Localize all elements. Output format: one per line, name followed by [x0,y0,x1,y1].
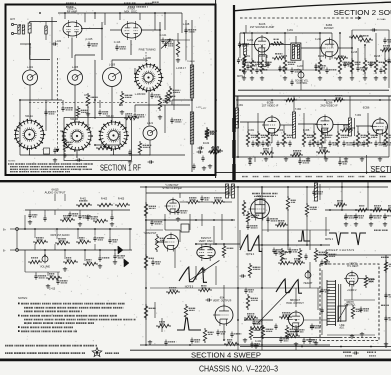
svg-text:CHASSIS NO. V–2220–3: CHASSIS NO. V–2220–3 [199,364,278,374]
svg-text:6AL5: 6AL5 [257,195,263,198]
svg-text:SWEEP CHASSIS: SWEEP CHASSIS [326,248,355,252]
svg-text:2ND VIDEO IF: 2ND VIDEO IF [320,103,338,107]
svg-text:HOR. OUTPUT: HOR. OUTPUT [286,301,304,305]
svg-text:R-303: R-303 [277,130,284,132]
svg-text:SECTION 1 RF: SECTION 1 RF [100,162,141,172]
svg-text:C-415: C-415 [49,289,56,291]
svg-text:NOTE 4: NOTE 4 [226,181,235,183]
svg-text:R-405: R-405 [118,199,125,201]
svg-text:R-203: R-203 [259,56,266,58]
svg-text:VERT. OSC.: VERT. OSC. [199,239,214,243]
svg-text:1ST VIDEO IF: 1ST VIDEO IF [262,103,279,107]
svg-text:½ 6SN7GT: ½ 6SN7GT [144,231,157,235]
svg-text:TUNER: TUNER [187,61,195,63]
svg-text:L-109 600: L-109 600 [135,94,146,96]
svg-text:R-215: R-215 [374,56,381,58]
svg-text:SYNC CLIPPER: SYNC CLIPPER [162,186,181,190]
svg-text:L-121: L-121 [147,122,154,125]
svg-text:NOTE 4: NOTE 4 [246,254,255,256]
svg-text:R-211: R-211 [338,56,345,58]
svg-text:R-309: R-309 [349,128,356,130]
svg-text:T-303: T-303 [355,115,362,117]
svg-text:560K: 560K [368,281,374,283]
svg-text:6AT6 1ST AUDIO: 6AT6 1ST AUDIO [50,234,69,237]
svg-text:6CB6: 6CB6 [363,106,370,110]
svg-text:NOTE 3: NOTE 3 [325,239,334,241]
svg-text:C-211: C-211 [315,39,322,41]
svg-text:AUDIO OUTPUT: AUDIO OUTPUT [45,190,66,194]
svg-text:R-205: R-205 [281,56,288,58]
svg-text:ANT.: ANT. [10,18,16,21]
svg-text:C-105: C-105 [86,38,93,41]
svg-text:L-177: L-177 [201,108,207,110]
svg-text:+9,000 V.: +9,000 V. [347,290,357,292]
svg-text:R-201: R-201 [244,56,251,58]
svg-text:MIX. OSC.: MIX. OSC. [124,10,138,14]
svg-text:SECTION 4 SWEEP: SECTION 4 SWEEP [191,353,261,360]
svg-text:R-162: R-162 [203,143,210,145]
svg-text:1ST SOUND IF AMP: 1ST SOUND IF AMP [250,25,275,29]
svg-text:FINE TUNING: FINE TUNING [139,48,156,52]
svg-text:T-302: T-302 [295,109,302,111]
svg-text:C-441: C-441 [255,341,262,343]
svg-text:HEIGHT: HEIGHT [304,283,313,285]
svg-text:L-113B: L-113B [143,57,151,60]
svg-text:C-201: C-201 [247,40,254,42]
svg-text:C-113: C-113 [114,41,121,44]
svg-text:SECTION 3: SECTION 3 [371,164,391,174]
svg-text:FM DET.: FM DET. [324,26,335,30]
svg-text:SECTION 2 SOUND: SECTION 2 SOUND [334,8,391,17]
svg-text:NOTES:: NOTES: [8,161,16,163]
svg-text:VERT. OUTPUT: VERT. OUTPUT [213,298,232,302]
svg-text:NOTES:: NOTES: [18,296,28,300]
svg-text:C-207: C-207 [297,66,304,68]
svg-text:H.V. RECT.: H.V. RECT. [347,266,359,268]
svg-text:IF CHAS: IF CHAS [377,18,386,21]
svg-text:L-148: L-148 [183,22,190,26]
svg-text:C-121: C-121 [160,34,167,37]
svg-text:L-103: L-103 [55,41,62,43]
svg-text:R-403: R-403 [101,199,108,201]
svg-text:SW-1A: SW-1A [25,115,33,118]
svg-text:R-401: R-401 [80,199,87,201]
svg-text:R-301: R-301 [248,130,255,132]
svg-text:L-158 4.7: L-158 4.7 [176,68,187,70]
svg-text:C-215: C-215 [351,52,358,54]
svg-text:SW-1C: SW-1C [106,115,114,118]
svg-text:R-209: R-209 [318,56,325,58]
svg-text:CONTROL: CONTROL [296,83,308,85]
svg-text:R-311: R-311 [373,130,380,132]
svg-text:RF AMP: RF AMP [67,10,78,14]
